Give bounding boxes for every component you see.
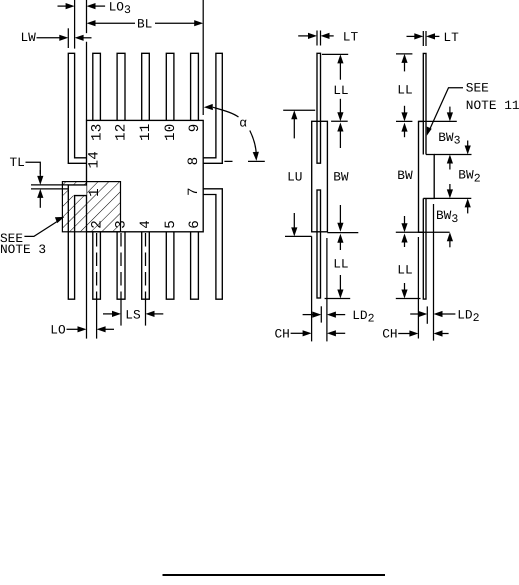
- mid ref line body top right: [331, 120, 348, 122]
- mid dimension LD2: [303, 308, 375, 326]
- lead 12: [117, 53, 125, 120]
- right extension lead right short: [426, 306, 428, 323]
- svg-text:LU: LU: [287, 170, 302, 185]
- dimension BL: [87, 17, 204, 32]
- lead 7 bent: [203, 189, 222, 299]
- centerline lead 2: [96, 233, 98, 299]
- svg-text:LL: LL: [397, 262, 412, 277]
- mid dimension LU: [287, 110, 302, 236]
- svg-text:LD: LD: [352, 308, 368, 323]
- extension line body right: [202, 0, 204, 115]
- svg-text:3: 3: [454, 135, 461, 148]
- svg-text:BW: BW: [333, 170, 349, 185]
- right extension wide right below: [433, 204, 435, 341]
- right lead lower: [423, 198, 426, 299]
- extension line lead14 right edge: [74, 0, 76, 49]
- svg-text:BW: BW: [397, 168, 413, 183]
- mid upper lead: [317, 53, 321, 163]
- svg-text:LW: LW: [21, 30, 37, 45]
- mid extension body left below: [311, 236, 313, 341]
- mid dimension BW: [333, 123, 349, 232]
- lead 13: [93, 53, 101, 120]
- svg-text:10: 10: [163, 124, 179, 141]
- svg-text:2: 2: [474, 172, 481, 185]
- right ref line step top: [434, 154, 471, 156]
- svg-text:LO: LO: [50, 323, 66, 338]
- right dimension LT: [407, 30, 460, 45]
- lead 5: [166, 232, 174, 299]
- right body outline: [419, 121, 424, 232]
- dimension LO: [50, 323, 114, 338]
- right dimension LD2: [410, 307, 479, 325]
- svg-text:LS: LS: [125, 308, 141, 323]
- svg-text:BW: BW: [436, 208, 452, 223]
- svg-text:5: 5: [163, 220, 179, 229]
- right step wide section: [423, 155, 434, 199]
- svg-text:12: 12: [114, 124, 130, 141]
- mid LU ref bottom: [285, 235, 312, 237]
- svg-text:4: 4: [138, 220, 154, 229]
- svg-text:BW: BW: [438, 130, 454, 145]
- right dimension BW: [397, 123, 413, 233]
- right dimension BW3 upper: [438, 107, 460, 170]
- right dimension BW3 lower: [436, 184, 458, 247]
- lead 9: [191, 53, 199, 120]
- dimension LS: [103, 308, 163, 323]
- mid LT extension lines: [317, 31, 321, 46]
- lead 3: [117, 232, 125, 299]
- extension line lead14 left edge: [67, 28, 69, 48]
- extension body left below: [86, 232, 88, 339]
- svg-text:6: 6: [187, 220, 203, 229]
- dimension LW: [21, 30, 92, 45]
- svg-text:LL: LL: [397, 83, 412, 98]
- svg-text:2: 2: [368, 313, 375, 326]
- svg-text:8: 8: [186, 157, 202, 166]
- right ref line body top right: [418, 120, 456, 122]
- mid ref line body bottom right: [327, 232, 358, 234]
- right ref line body bottom: [396, 231, 450, 233]
- svg-text:7: 7: [186, 187, 202, 196]
- right ref line body top left: [396, 120, 412, 122]
- mid dimension LL upper: [333, 54, 348, 121]
- lead 6: [191, 232, 199, 299]
- extension line body left: [86, 0, 88, 120]
- leader SEE NOTE 11: [427, 80, 519, 135]
- svg-text:LD: LD: [457, 307, 473, 322]
- svg-text:BW: BW: [458, 168, 474, 183]
- mid extension lead right short: [320, 306, 322, 322]
- leader SEE NOTE 3: [0, 217, 64, 257]
- svg-text:SEE: SEE: [466, 80, 489, 95]
- mid lower lead: [317, 190, 321, 298]
- lead 4: [142, 232, 150, 299]
- dimension TL: [10, 155, 44, 208]
- right dimension LL upper: [397, 54, 412, 122]
- right LT extension lines: [423, 31, 426, 46]
- svg-text:14: 14: [86, 151, 102, 168]
- right extension body left below: [417, 237, 419, 339]
- svg-text:LT: LT: [343, 29, 359, 44]
- dimension LO3: [58, 0, 132, 17]
- right dimension BW2: [458, 141, 480, 214]
- svg-text:11: 11: [138, 124, 154, 141]
- svg-text:CH: CH: [275, 327, 290, 342]
- TL extension lines lead1 edges: [31, 185, 68, 189]
- mid LU ref top: [283, 109, 315, 111]
- svg-text:2: 2: [89, 220, 105, 229]
- svg-text:BL: BL: [137, 17, 152, 32]
- hatch SEE NOTE 3 region: [62, 182, 120, 232]
- svg-text:LO: LO: [109, 0, 125, 15]
- svg-text:LT: LT: [443, 30, 459, 45]
- package body: [87, 120, 204, 231]
- svg-text:9: 9: [187, 124, 203, 133]
- mid extension body right below: [326, 238, 328, 341]
- svg-text:CH: CH: [382, 327, 397, 342]
- lead 2: [93, 232, 101, 299]
- mid ref line lead top: [322, 53, 348, 55]
- svg-text:2: 2: [473, 312, 480, 325]
- lead 8 bent: [203, 53, 222, 163]
- mid dimension CH: [275, 327, 346, 342]
- lead 10: [166, 53, 174, 120]
- lead 1 bent: [68, 185, 86, 196]
- svg-text:TL: TL: [10, 155, 25, 170]
- lead 11: [142, 53, 150, 120]
- svg-text:13: 13: [89, 124, 105, 141]
- mid dimension LL lower: [333, 234, 348, 299]
- bottom rule line: [163, 574, 386, 576]
- svg-text:NOTE 11: NOTE 11: [466, 98, 519, 113]
- svg-text:1: 1: [87, 188, 103, 197]
- svg-text:3: 3: [451, 213, 458, 226]
- centerline lead 3: [120, 233, 122, 299]
- mid dimension LT: [298, 29, 358, 44]
- right ref line lead top: [396, 53, 412, 55]
- right ref line lead bottom: [396, 298, 421, 300]
- svg-text:3: 3: [124, 4, 131, 17]
- right lead upper: [423, 53, 426, 154]
- mid ref line lead bottom: [325, 298, 351, 300]
- svg-text:NOTE 3: NOTE 3: [0, 242, 46, 257]
- lead 14 bent: [68, 53, 86, 163]
- right dimension LL lower: [397, 234, 412, 299]
- mid body: [312, 121, 328, 232]
- svg-text:LL: LL: [333, 83, 348, 98]
- svg-text:α: α: [239, 116, 247, 131]
- alpha angle annotation: [204, 104, 265, 161]
- right dimension CH: [382, 327, 448, 342]
- right ref line step bottom: [434, 197, 471, 199]
- svg-text:3: 3: [114, 220, 130, 229]
- svg-text:LL: LL: [333, 257, 348, 272]
- centerline lead 4: [145, 233, 147, 299]
